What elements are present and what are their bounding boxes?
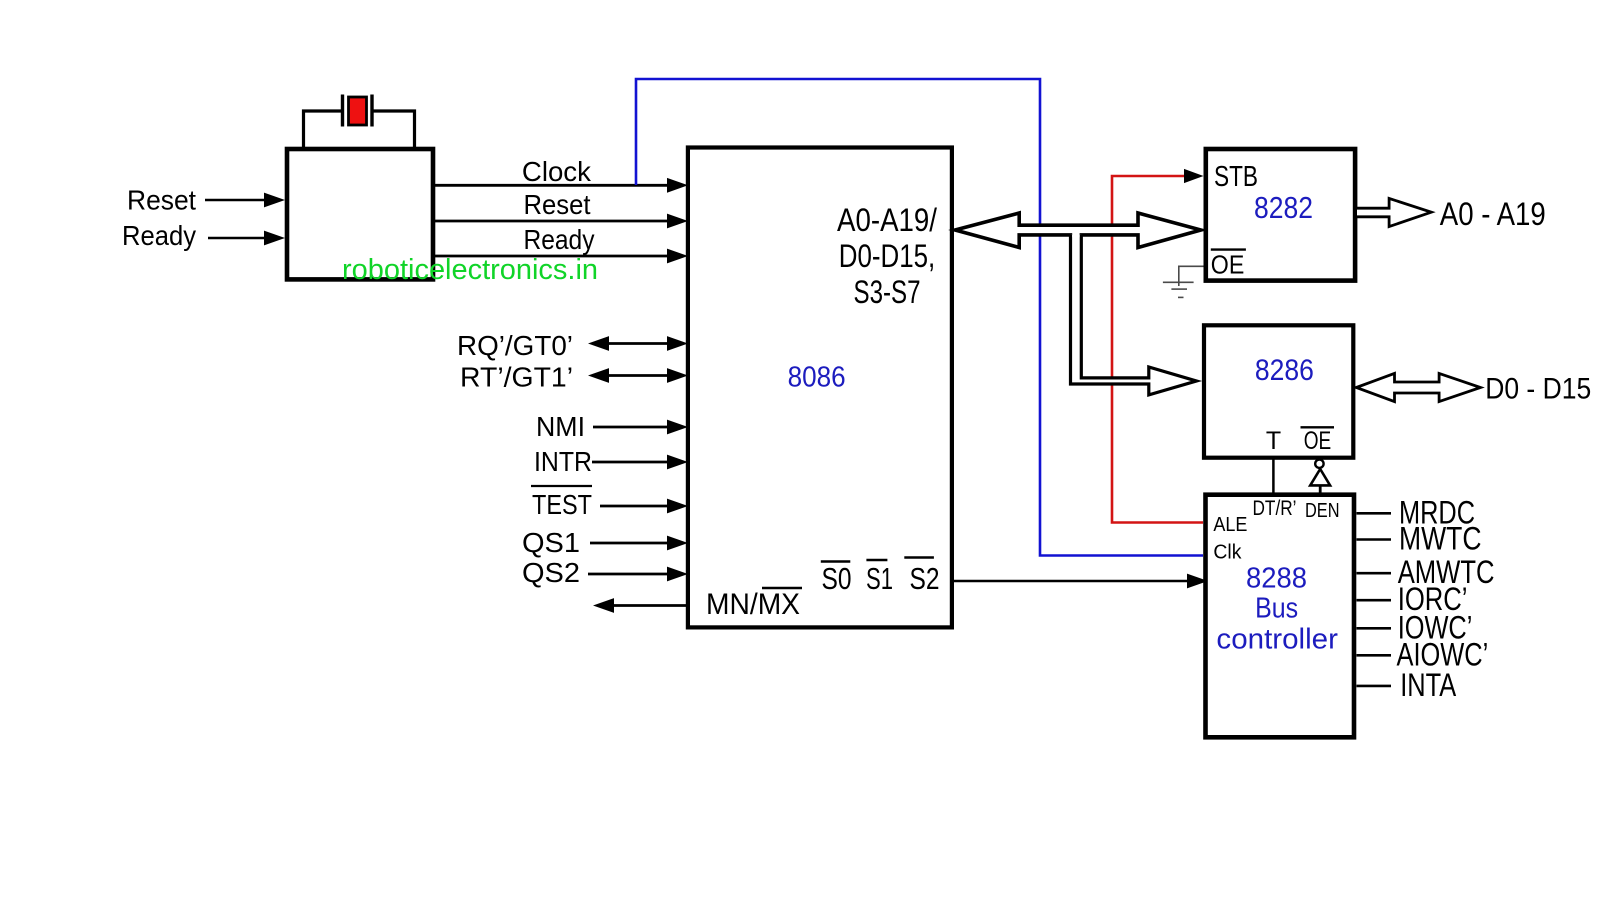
wire QS1 (590, 542, 670, 545)
overbar S2 (904, 556, 934, 558)
junction gap (open channel) (1072, 233, 1079, 238)
latch 8282 box (1206, 149, 1355, 281)
svg-text:D0-D15,: D0-D15, (839, 238, 936, 274)
svg-text:8282: 8282 (1254, 190, 1313, 225)
wire Ready into clock gen (208, 237, 266, 240)
svg-text:Ready: Ready (122, 220, 196, 251)
svg-text:Clock: Clock (522, 156, 592, 187)
wire TEST (600, 505, 670, 508)
svg-text:controller: controller (1216, 623, 1338, 655)
crystal bracket wire (304, 111, 415, 148)
arrowhead red to STB (1184, 169, 1204, 183)
svg-text:8086: 8086 (788, 362, 846, 394)
wire Reset: clock gen to 8086 (433, 220, 670, 223)
svg-text:DEN: DEN (1305, 500, 1340, 522)
svg-text:RT’/GT1’: RT’/GT1’ (460, 362, 573, 393)
svg-text:Bus: Bus (1255, 593, 1298, 625)
svg-text:ALE: ALE (1213, 514, 1247, 536)
wire INTR (592, 461, 670, 464)
arrowhead Clock (667, 178, 688, 193)
svg-text:RQ’/GT0’: RQ’/GT0’ (457, 330, 573, 361)
arrowhead Reset 8086 (667, 214, 688, 229)
svg-text:8288: 8288 (1246, 563, 1307, 595)
wire QS2 (588, 573, 670, 576)
bus arrow out: 8282 to A0-A19 (hollow) (1357, 198, 1431, 226)
pin MRDC (1357, 512, 1392, 515)
svg-text:OE: OE (1211, 250, 1245, 280)
svg-text:Reset: Reset (127, 185, 196, 216)
arrowhead status into 8288 (1187, 574, 1208, 589)
svg-text:STB: STB (1214, 161, 1258, 193)
ground wire from OE (1179, 266, 1204, 286)
pin MN/MX output arrow (610, 604, 688, 607)
ground symbol (1163, 281, 1194, 283)
svg-text:D0 - D15: D0 - D15 (1485, 372, 1591, 405)
svg-text:A0-A19/: A0-A19/ (837, 202, 937, 238)
svg-text:OE: OE (1304, 427, 1332, 455)
svg-text:Clk: Clk (1213, 542, 1242, 564)
wire NMI (593, 426, 670, 429)
pin INTA (1357, 685, 1392, 688)
svg-text:S1: S1 (866, 561, 893, 596)
wire Clock: clock gen to 8086 (433, 184, 670, 187)
svg-text:MN/MX: MN/MX (706, 588, 800, 621)
svg-text:roboticelectronics.in: roboticelectronics.in (342, 254, 598, 286)
wire status S0-S2 to 8288 (953, 580, 1188, 583)
svg-text:8286: 8286 (1255, 354, 1314, 387)
svg-text:A0 - A19: A0 - A19 (1440, 196, 1546, 232)
bus controller 8288 box (1206, 495, 1355, 738)
svg-text:MWTC: MWTC (1399, 521, 1482, 557)
crystal body (red) (349, 97, 367, 125)
wire RQ'/GT0' bidirectional (604, 342, 672, 345)
overbar S0 (821, 560, 851, 562)
svg-text:S2: S2 (910, 561, 940, 596)
svg-text:DT/R’: DT/R’ (1253, 497, 1297, 520)
svg-text:T: T (1266, 427, 1281, 455)
CPU 8086 box (688, 148, 952, 628)
svg-text:S0: S0 (822, 561, 852, 596)
bus branch to 8286 (hollow) (1071, 235, 1197, 395)
crystal plate left (341, 95, 344, 127)
clock generator box 8284 (287, 149, 433, 279)
wire DEN to 8288 (1319, 485, 1322, 494)
crystal plate right (370, 95, 373, 127)
wire T pin to 8288 DT/R' (1272, 458, 1275, 495)
overbar OE 8282 (1211, 248, 1246, 250)
overbar MX (762, 587, 802, 589)
pin AMWTC (1357, 572, 1392, 575)
svg-text:Ready: Ready (524, 224, 595, 255)
overbar S1 (866, 559, 887, 561)
arrowhead Reset (264, 193, 285, 208)
svg-text:INTR: INTR (534, 446, 592, 477)
svg-text:INTA: INTA (1400, 667, 1457, 703)
overbar OE 8286 (1301, 426, 1335, 428)
wire red: ALE net (1112, 176, 1203, 523)
svg-text:QS1: QS1 (522, 527, 580, 558)
pin AIOWC' (1357, 654, 1392, 657)
svg-text:S3-S7: S3-S7 (854, 274, 921, 310)
bus arrow: 8286 to D0-D15 (hollow double) (1356, 373, 1480, 401)
svg-text:Reset: Reset (524, 189, 591, 220)
overbar TEST (531, 485, 592, 487)
arrowhead Ready 8086 (667, 249, 688, 264)
pin MWTC (1357, 538, 1392, 541)
svg-text:NMI: NMI (536, 411, 585, 442)
wire blue: clock to 8288 Clk (636, 79, 1203, 556)
wire Ready: clock gen to 8086 (433, 255, 670, 258)
wire RT'/GT1' bidirectional (604, 374, 672, 377)
DEN inverter bubble (1315, 460, 1323, 468)
svg-text:QS2: QS2 (522, 557, 580, 588)
transceiver 8286 box (1204, 325, 1353, 457)
pin IOWC' (1357, 627, 1392, 630)
arrowhead Ready (264, 231, 285, 246)
svg-text:TEST: TEST (532, 489, 592, 520)
bus arrow: 8086 to 8282 (address/data bus, hollow double arrow) (955, 213, 1201, 248)
wire Reset into clock gen (205, 199, 266, 202)
pin IORC' (1357, 599, 1392, 602)
DEN buffer triangle (1310, 469, 1330, 485)
